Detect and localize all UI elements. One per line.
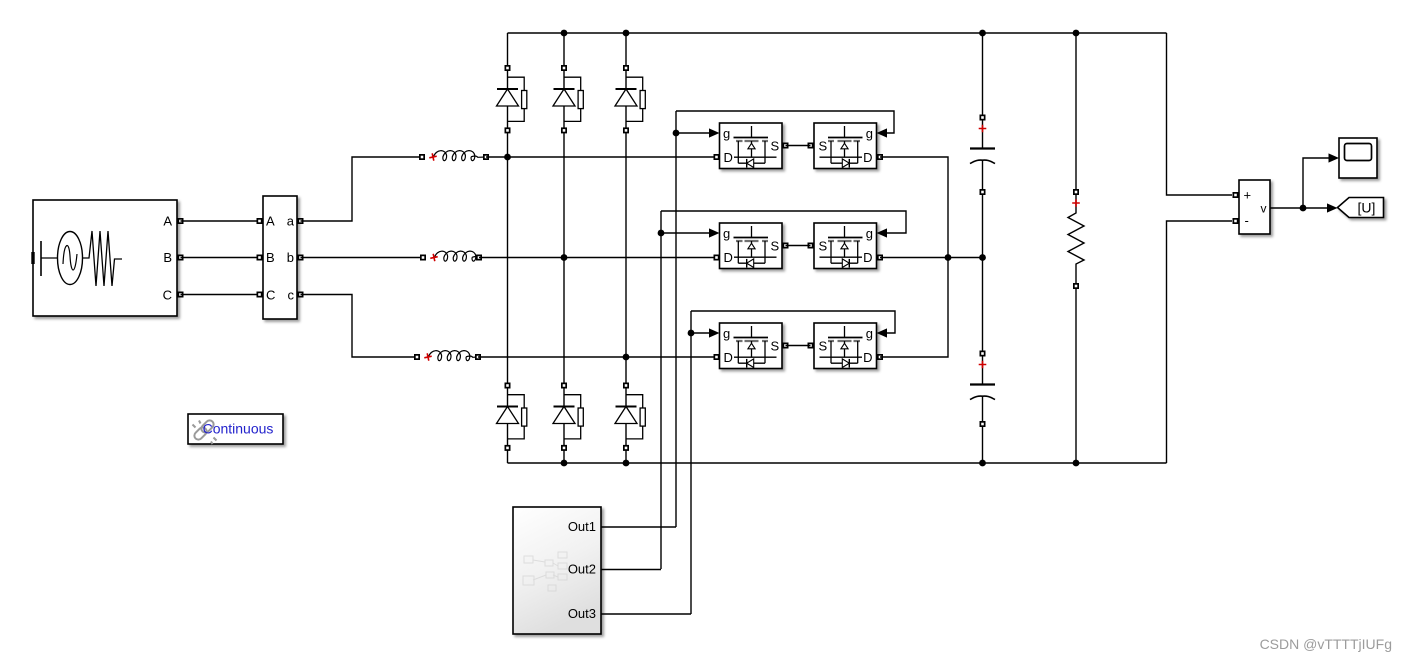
svg-text:A: A — [163, 214, 172, 229]
three-phase source block — [33, 200, 177, 316]
diode D4 (bottom leg 1) — [497, 383, 527, 450]
svg-text:+: + — [1244, 188, 1252, 203]
voltmeter + port — [1233, 193, 1237, 197]
node gate 3 branch — [688, 330, 695, 337]
voltage measurement U1 — [1239, 180, 1270, 234]
MOSFET S3 S port — [783, 243, 787, 247]
wire S-S link row 1 — [786, 145, 811, 147]
wire positive DC bus — [508, 32, 1167, 34]
MOSFET S2 (right) — [814, 123, 877, 169]
wire gate 1 into left S1 — [676, 128, 720, 137]
wire gate 3 into left S5 — [691, 328, 720, 337]
svg-text:B: B — [266, 250, 275, 265]
wire gate 1 riser — [675, 111, 677, 527]
MOSFET S4 S port — [808, 243, 812, 247]
wire S4 drain to midpoint — [880, 257, 983, 259]
wire c to inductor L3 — [301, 295, 418, 358]
inductor L3 — [415, 351, 480, 362]
wire Out3 to gate 3 — [601, 613, 691, 615]
svg-text:v: v — [1261, 202, 1267, 216]
svg-text:S: S — [771, 139, 780, 154]
three-phase V-I measurement block — [263, 196, 297, 319]
wire phase B line — [479, 257, 717, 259]
svg-text:Out3: Out3 — [568, 606, 596, 621]
MOSFET S3 D port — [714, 255, 718, 259]
node midpoint junction — [945, 254, 952, 261]
wire rectifier leg 2 — [563, 33, 565, 463]
node DC bus top leg 2 — [561, 30, 568, 37]
voltmeter - port — [1233, 219, 1237, 223]
measurement port A — [257, 219, 261, 223]
wire gate 3 top bracket — [691, 311, 895, 333]
svg-text:D: D — [724, 250, 733, 265]
diode D3 (top leg 3) — [615, 66, 645, 133]
MOSFET S5 D port — [714, 355, 718, 359]
MOSFET S4 (right) — [814, 223, 877, 269]
MOSFET S3 (left) — [720, 223, 783, 269]
svg-text:Out1: Out1 — [568, 519, 596, 534]
node DC bus bottom capacitor leg — [979, 460, 986, 467]
wire capacitor leg — [982, 33, 984, 463]
wire Out2 to gate 2 — [601, 569, 661, 571]
node DC bus top capacitor leg — [979, 30, 986, 37]
svg-text:D: D — [724, 350, 733, 365]
wire S-S link row 2 — [786, 245, 811, 247]
svg-text:C: C — [163, 288, 172, 303]
svg-text:g: g — [866, 326, 873, 341]
measurement port C — [257, 292, 261, 296]
svg-text:S: S — [819, 339, 828, 354]
wire DC- to voltmeter — [1167, 221, 1233, 463]
svg-text:S: S — [819, 139, 828, 154]
svg-text:b: b — [287, 250, 294, 265]
wire gate 3 riser — [690, 311, 692, 614]
svg-text:-: - — [1245, 213, 1249, 228]
node output branch — [1300, 205, 1307, 212]
MOSFET S1 D port — [714, 155, 718, 159]
MOSFET S2 S port — [808, 143, 812, 147]
inductor L1 — [420, 151, 488, 162]
wire phase A line — [486, 156, 717, 158]
wire to scope — [1303, 153, 1339, 208]
arrow gate 3 into right S6 — [877, 328, 888, 337]
goto tag [U] — [1338, 198, 1384, 218]
wire resistor leg — [1075, 33, 1077, 463]
svg-text:D: D — [863, 350, 872, 365]
node phase A / leg 1 junction — [504, 154, 511, 161]
node phase C / leg 3 junction — [623, 354, 630, 361]
node phase B / leg 2 junction — [561, 254, 568, 261]
wire gate 2 riser — [660, 211, 662, 569]
wire phase C line — [478, 356, 717, 358]
measurement port b — [298, 255, 302, 259]
MOSFET S2 D port — [878, 155, 882, 159]
svg-text:a: a — [287, 214, 295, 229]
svg-text:A: A — [266, 214, 275, 229]
svg-text:S: S — [771, 239, 780, 254]
wire gate 2 top bracket — [661, 211, 906, 233]
wire source B to measurement B — [181, 257, 260, 259]
node DC bus top leg 3 — [623, 30, 630, 37]
svg-text:g: g — [723, 126, 730, 141]
svg-text:S: S — [819, 239, 828, 254]
diode D6 (bottom leg 3) — [615, 383, 645, 450]
svg-text:CSDN @vTTTTjIUFg: CSDN @vTTTTjIUFg — [1260, 636, 1392, 652]
MOSFET S5 (left) — [720, 323, 783, 369]
watermark text — [1260, 636, 1392, 652]
node gate 2 branch — [658, 230, 665, 237]
MOSFET S4 D port — [878, 255, 882, 259]
wire gate 1 top bracket — [676, 111, 894, 133]
svg-text:D: D — [863, 150, 872, 165]
MOSFET S1 S port — [783, 143, 787, 147]
svg-text:[U]: [U] — [1358, 200, 1376, 216]
measurement port c — [298, 292, 302, 296]
MOSFET S6 S port — [808, 343, 812, 347]
diode D5 (bottom leg 2) — [553, 383, 583, 450]
node DC bus bottom resistor leg — [1073, 460, 1080, 467]
node DC bus bottom leg 3 — [623, 460, 630, 467]
wire DC+ to voltmeter — [1167, 33, 1233, 195]
wire b to inductor L2 — [301, 257, 424, 259]
wire S2 drain to midpoint — [880, 157, 948, 258]
MOSFET S6 D port — [878, 355, 882, 359]
svg-text:g: g — [723, 326, 730, 341]
svg-text:c: c — [288, 288, 295, 303]
inductor L2 — [421, 251, 481, 262]
control subsystem block — [513, 507, 601, 634]
wire gate 2 into left S3 — [661, 228, 720, 237]
wire rectifier leg 1 — [507, 33, 509, 463]
source port A — [178, 219, 182, 223]
svg-text:g: g — [723, 226, 730, 241]
wire S-S link row 3 — [786, 345, 811, 347]
arrow gate 1 into right S2 — [877, 128, 888, 137]
wire source A to measurement A — [181, 220, 260, 222]
diode D2 (top leg 2) — [553, 66, 583, 133]
MOSFET S6 (right) — [814, 323, 877, 369]
source port C — [178, 292, 182, 296]
powergui block (Continuous) — [188, 414, 283, 444]
svg-text:D: D — [724, 150, 733, 165]
source port B — [178, 255, 182, 259]
node DC bus top resistor leg — [1073, 30, 1080, 37]
wire a to inductor L1 — [301, 157, 423, 221]
svg-text:C: C — [266, 288, 275, 303]
svg-text:B: B — [163, 250, 172, 265]
measurement port B — [257, 255, 261, 259]
diode D1 (top leg 1) — [497, 66, 527, 133]
wire rectifier leg 3 — [625, 33, 627, 463]
svg-text:S: S — [771, 339, 780, 354]
svg-text:Out2: Out2 — [568, 562, 596, 577]
node DC bus bottom leg 2 — [561, 460, 568, 467]
node gate 1 branch — [673, 130, 680, 137]
MOSFET S1 (left) — [720, 123, 783, 169]
node capacitor midpoint — [979, 254, 986, 261]
wire source C to measurement C — [181, 294, 260, 296]
svg-text:Continuous: Continuous — [203, 421, 274, 437]
wire Out1 to gate 1 — [601, 526, 676, 528]
capacitor C1 (upper) — [970, 115, 995, 194]
wire to goto tag — [1303, 203, 1338, 212]
svg-text:D: D — [863, 250, 872, 265]
measurement port a — [298, 219, 302, 223]
capacitor C2 (lower) — [970, 351, 995, 426]
wire negative DC bus — [508, 462, 1167, 464]
wire S6 drain to midpoint — [880, 258, 948, 358]
svg-text:g: g — [866, 226, 873, 241]
resistor R1 (load) — [1068, 190, 1084, 288]
arrow gate 2 into right S4 — [877, 228, 888, 237]
scope block — [1339, 138, 1377, 178]
wire voltmeter output — [1270, 207, 1303, 209]
MOSFET S5 S port — [783, 343, 787, 347]
svg-text:g: g — [866, 126, 873, 141]
